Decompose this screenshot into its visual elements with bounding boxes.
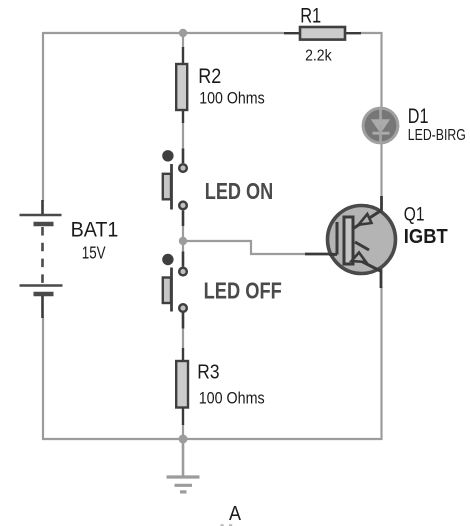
wire left rail battery top — [42, 32, 44, 201]
LED D1 — [363, 108, 398, 143]
svg-text:R3: R3 — [197, 362, 219, 384]
wire LED cathode to IGBT collector — [380, 144, 382, 198]
svg-text:Q1: Q1 — [404, 203, 425, 225]
svg-text:100 Ohms: 100 Ohms — [199, 89, 265, 107]
svg-text:LED OFF: LED OFF — [204, 278, 282, 304]
junction node top — [179, 29, 187, 37]
svg-text:IGBT: IGBT — [404, 226, 448, 248]
wire R2 top stub — [182, 33, 184, 49]
wire node between buttons to IGBT gate — [183, 241, 306, 254]
wire R1 right to LED — [360, 33, 382, 108]
svg-text:R2: R2 — [198, 65, 221, 88]
svg-text:D1: D1 — [408, 105, 429, 128]
wire bottom rail — [43, 287, 382, 439]
junction node between buttons — [179, 237, 187, 245]
wire button2 to R3 — [182, 327, 184, 350]
svg-text:LED ON: LED ON — [205, 178, 273, 204]
resistor R1 — [284, 27, 361, 40]
svg-text:A: A — [229, 502, 241, 525]
svg-text:LED-BIRG: LED-BIRG — [408, 127, 466, 144]
resistor R3 — [176, 348, 188, 425]
svg-text:2.2k: 2.2k — [305, 48, 332, 65]
wire R3 bottom to ground node — [182, 424, 184, 440]
pushbutton LED ON — [162, 149, 187, 227]
junction node ground — [179, 435, 188, 444]
wire button1 to button2 — [182, 225, 184, 252]
transistor Q1 IGBT — [305, 196, 396, 288]
pushbutton LED OFF — [162, 252, 187, 329]
battery BAT1 — [20, 200, 63, 318]
resistor R2 — [176, 47, 187, 123]
svg-text:R1: R1 — [300, 4, 321, 27]
wire top rail from battery to R1 — [43, 32, 284, 34]
svg-text:100 Ohms: 100 Ohms — [199, 390, 265, 408]
wire R2 bottom to button1 — [182, 122, 184, 150]
svg-text:BAT1: BAT1 — [71, 217, 119, 241]
ground — [167, 441, 200, 492]
svg-text:15V: 15V — [82, 242, 106, 262]
cut-off caption fragment at bottom edge — [221, 524, 224, 526]
